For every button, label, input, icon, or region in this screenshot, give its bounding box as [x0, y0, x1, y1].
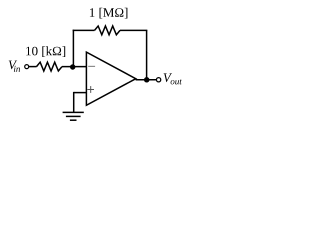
wire feedback left vertical — [72, 30, 74, 67]
value label 1 [MOhm] — [90, 8, 128, 19]
wire op-amp output — [136, 79, 157, 81]
plus sign (non-inverting input) — [87, 89, 94, 91]
node B output junction dot — [144, 77, 150, 83]
resistor R2 1 [MOhm] — [95, 26, 121, 35]
node Vin label — [9, 61, 20, 72]
op-amp U1 triangle — [86, 52, 135, 105]
value label 10 [kOhm] — [26, 46, 65, 57]
ground — [63, 111, 84, 113]
wire R1 to op-amp inverting input — [62, 66, 86, 68]
resistor R1 10 [kOhm] — [37, 62, 63, 71]
terminal Vout (open circle) — [156, 78, 160, 82]
minus sign (inverting input) — [88, 65, 95, 67]
wire feedback top left segment — [73, 29, 95, 31]
wire Vin terminal to R1 — [29, 66, 37, 68]
wire feedback top right segment — [120, 29, 147, 31]
wire non-inverting input horizontal — [74, 92, 87, 94]
wire non-inverting input vertical to ground — [73, 92, 75, 113]
terminal Vin (open circle) — [25, 65, 29, 69]
node A junction dot — [70, 64, 75, 69]
wire feedback right vertical — [146, 30, 148, 79]
node Vout label — [164, 73, 182, 84]
